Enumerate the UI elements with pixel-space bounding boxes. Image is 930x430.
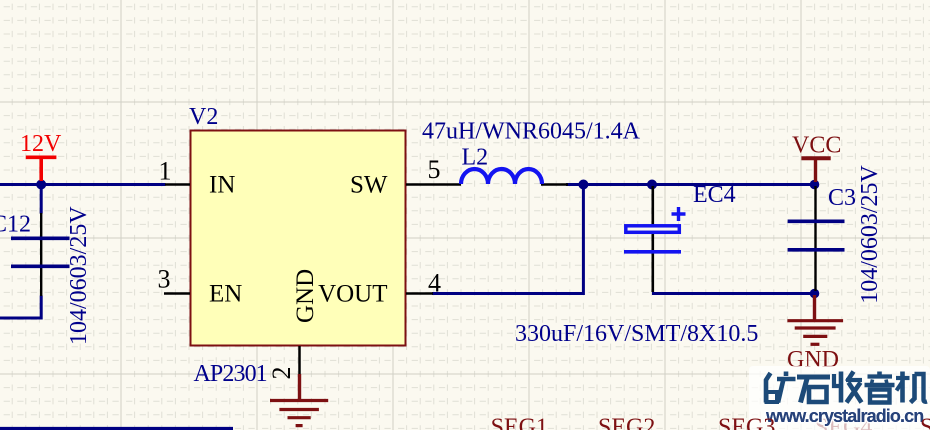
- svg-text:IN: IN: [209, 172, 235, 199]
- svg-text:SEG1: SEG1: [491, 415, 548, 430]
- svg-text:SW: SW: [350, 172, 388, 199]
- svg-text:GND: GND: [292, 269, 319, 323]
- svg-text:VCC: VCC: [792, 133, 841, 159]
- svg-text:1: 1: [159, 157, 172, 186]
- svg-text:SE: SE: [920, 415, 930, 430]
- svg-text:47uH/WNR6045/1.4A: 47uH/WNR6045/1.4A: [422, 118, 641, 144]
- svg-text:104/0603/25V: 104/0603/25V: [857, 164, 883, 303]
- svg-text:SEG3: SEG3: [718, 415, 775, 430]
- svg-text:104/0603/25V: 104/0603/25V: [66, 206, 92, 345]
- svg-text:V2: V2: [189, 104, 218, 130]
- svg-text:2: 2: [267, 367, 296, 380]
- svg-text:C12: C12: [0, 212, 31, 238]
- svg-text:330uF/16V/SMT/8X10.5: 330uF/16V/SMT/8X10.5: [515, 321, 758, 347]
- svg-text:4: 4: [428, 269, 441, 298]
- svg-text:www.crystalradio.cn: www.crystalradio.cn: [765, 406, 923, 426]
- svg-text:L2: L2: [462, 144, 489, 170]
- svg-text:12V: 12V: [20, 131, 62, 157]
- svg-text:EN: EN: [209, 281, 242, 308]
- svg-text:5: 5: [428, 155, 441, 184]
- svg-text:SEG2: SEG2: [598, 415, 655, 430]
- svg-text:EC4: EC4: [693, 182, 736, 208]
- svg-text:VOUT: VOUT: [318, 281, 387, 308]
- svg-text:3: 3: [158, 265, 171, 294]
- svg-text:AP2301: AP2301: [194, 361, 267, 387]
- svg-text:C3: C3: [828, 185, 856, 211]
